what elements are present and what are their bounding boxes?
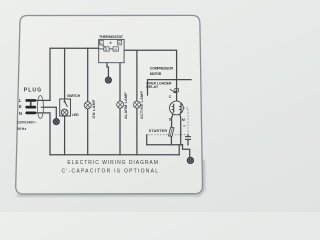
svg-text:ALARM LAMP: ALARM LAMP xyxy=(124,92,128,119)
svg-text:ON LAMP: ON LAMP xyxy=(92,99,96,118)
svg-text:LED: LED xyxy=(72,113,79,117)
svg-text:θ: θ xyxy=(110,41,112,45)
svg-text:STARTER: STARTER xyxy=(149,129,168,133)
svg-text:RELAY: RELAY xyxy=(146,85,159,89)
svg-text:H: H xyxy=(115,47,117,51)
svg-text:N: N xyxy=(19,111,22,116)
svg-text:C'-CAPACITOR IS OPTIONAL: C'-CAPACITOR IS OPTIONAL xyxy=(62,169,159,175)
svg-text:M: M xyxy=(182,118,185,122)
svg-text:E: E xyxy=(19,104,22,109)
svg-text:COMPRESSOR: COMPRESSOR xyxy=(150,66,174,70)
svg-text:ELECTRIC WIRING DIAGRAM: ELECTRIC WIRING DIAGRAM xyxy=(67,160,157,166)
svg-text:C': C' xyxy=(183,124,186,128)
svg-text:E: E xyxy=(105,47,107,51)
svg-text:50Hz: 50Hz xyxy=(17,127,26,131)
svg-text:L: L xyxy=(19,98,22,103)
svg-text:THERMOSTAT: THERMOSTAT xyxy=(99,35,124,39)
svg-text:MOTOR: MOTOR xyxy=(150,72,162,76)
svg-text:PLUG: PLUG xyxy=(24,88,42,94)
svg-text:220V/240V~: 220V/240V~ xyxy=(17,120,37,124)
svg-text:SWITCH: SWITCH xyxy=(67,94,80,98)
svg-text:ACTIVE LAMP: ACTIVE LAMP xyxy=(140,91,144,119)
svg-text:L: L xyxy=(100,41,102,45)
